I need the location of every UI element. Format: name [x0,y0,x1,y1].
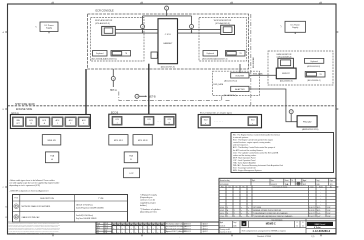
svg-text:Repl.: Repl. [252,180,256,182]
svg-text:TB: TB [125,53,127,55]
cable console to ECC-A (bold) [85,69,87,116]
svg-text:B.W 05.13: B.W 05.13 [185,226,191,228]
C ICU cabinet [158,19,178,64]
svg-text:3: 3 [83,123,84,125]
svg-text:SHIP SIDE (ECR): SHIP SIDE (ECR) [15,103,35,106]
svg-text:QA 12.17: QA 12.17 [203,222,209,225]
svg-text:B.W 05.13: B.W 05.13 [185,223,191,225]
ECC-3 unit SCU z [248,117,258,126]
svg-text:1ST ISSUE: 1ST ISSUE [253,207,261,209]
approval strip cells [112,226,165,234]
svg-text:(A13-50505B-3)(A13-50505Y-1): (A13-50505B-3)(A13-50505Y-1) [202,58,228,61]
ECC-B cabinet box [109,114,176,127]
title block outline [219,178,336,233]
WHS junction box [42,135,61,145]
MCU junction box 1 [109,135,128,145]
ECC-A unit ECU B [26,117,37,126]
svg-text:builder.): builder.) [140,204,147,207]
svg-text:1: 1 [51,2,52,4]
svg-text:EMS_DATA: EMS_DATA [253,72,263,75]
arrow node 2 to wire [142,29,144,34]
svg-text:depending on tech. agreement.(: depending on tech. agreement.(ICD) [9,184,40,187]
WOP-A group dashed box [91,18,145,62]
svg-text:12.04.17: 12.04.17 [309,216,315,218]
dash-dot boundary HFT-A to router [119,92,222,101]
svg-text:Chk: Chk [97,225,100,227]
svg-text:· · · · · ·: · · · · · · [214,120,223,123]
EMS console dashed box [268,51,333,85]
svg-text:2: 2 [70,123,71,125]
svg-text:(A11-D00057-3): (A11-D00057-3) [280,80,293,83]
node 1 above cabinet [165,6,169,10]
svg-text:Ap: Ap [330,185,332,188]
svg-text:06.10: 06.10 [105,225,109,227]
svg-text:1:1: 1:1 [302,225,304,227]
trackball (WOP-B) [226,51,246,57]
arrow node 3 to wire [191,29,193,34]
svg-text:· · ·: · · · [157,120,161,123]
svg-text:Pg: Pg [243,186,245,188]
svg-text:a: a [205,123,206,125]
svg-text:TSA : Tacho System Amplifier: TSA : Tacho System Amplifier [233,162,256,165]
svg-text:05.06.13: 05.06.13 [220,225,226,227]
keyboard (EMS) [305,58,324,63]
svg-text:B.W 05.13: B.W 05.13 [185,229,191,231]
title header band [219,185,336,187]
svg-text:*): *) [35,27,37,29]
svg-text:Keyboard: Keyboard [96,52,103,55]
svg-text:OPT: OPT [16,123,19,125]
svg-text:1: 1 [117,122,118,124]
svg-text:Dept: Dept [233,221,237,224]
svg-text:CAT5e/6 Tv/TvB (Pass): CAT5e/6 Tv/TvB (Pass) [76,203,93,206]
svg-text:DC Power: DC Power [44,25,53,27]
svg-text:Description of change: Description of change [273,185,288,188]
TSA B box [124,152,138,163]
DC power supply (left) [40,22,58,32]
MCU junction box N [133,135,152,145]
svg-text:ECU : The Engine Control Units: ECU : The Engine Control Units perform t… [233,139,273,142]
svg-text:(A13-50505A-3)(A13-50505Y-1): (A13-50505A-3)(A13-50505Y-1) [92,58,118,61]
svg-text:ENGINE SIDE: ENGINE SIDE [16,108,32,111]
wire node 1 down [166,10,168,16]
trackball (WOP-A) [111,51,131,57]
svg-text:B.W 05.13: B.W 05.13 [185,231,191,233]
wire adapter to PMI-CAU [249,89,297,122]
svg-text:A: A [227,209,228,212]
svg-text:HFT-A: HFT-A [110,89,117,92]
EMS monitor screen [278,58,294,68]
svg-text:- LENGTH is depends on Technic: - LENGTH is depends on Technical Agreeme… [9,189,49,192]
node 2 left of cabinet [141,25,145,29]
TSA A box [45,152,58,163]
svg-text:GENERAL UPDATE 2ND NO REPLIES: GENERAL UPDATE 2ND NO REPLIES [253,209,281,212]
svg-text:2045: 2045 [233,225,236,227]
cable cabinet to ECC-B (bold) [148,64,150,116]
svg-text:Rev: Rev [221,186,224,188]
ship side / engine side dashed line [8,105,337,107]
svg-text:4: 4 [319,2,320,4]
svg-text:F: F [297,222,298,224]
svg-text:Revised 06.10.27 rev B approve: Revised 06.10.27 rev B approved [166,229,186,231]
svg-text:CABLE FOR PMI-CAU: CABLE FOR PMI-CAU [22,216,41,219]
svg-text:(depending on ICD): (depending on ICD) [140,211,157,213]
svg-text:05.06: 05.06 [220,207,224,209]
svg-text:B: B [3,109,4,111]
svg-text:Appd: Appd [220,221,223,224]
svg-text:ECS components & arrangement f: ECS components & arrangement for ME/ME-C… [242,229,286,232]
svg-text:Name: Name [285,180,289,182]
svg-text:4-12-605280-3: 4-12-605280-3 [312,229,330,233]
svg-text:Standard - 07/2008: Standard - 07/2008 [257,235,271,238]
svg-text:Ind: Ind [229,186,231,188]
svg-text:DataTuff(Tv/TvB 5Gnet): DataTuff(Tv/TvB 5Gnet) [76,214,93,217]
svg-text:*) DIAG/PMS/ACCO(1386) DWG NO: *) DIAG/PMS/ACCO(1386) DWG NO CHANGED. [253,212,289,215]
wire cabinet to WOP-B monitor (upper) [178,28,221,30]
svg-text:and start sequence.: and start sequence. [233,144,249,147]
svg-text:Page: Page [330,180,333,182]
svg-text:Made: Made [97,223,101,225]
svg-text:TB: TB [240,53,242,55]
keyboard (WOP-A) [93,51,108,57]
ECC-A unit ACU 1 [52,117,63,126]
revision table [219,187,336,189]
svg-text:2 pumps el. driven: 2 pumps el. driven [220,232,232,234]
svg-text:Supply: Supply [292,27,298,29]
wire router to EMS PC [249,74,276,76]
wire WOP-A monitor to cabinet (lower) [115,32,158,34]
svg-text:EMS PC: EMS PC [282,73,290,75]
ECC-B unit CCU 1 [112,117,122,126]
svg-text:the HPS unit and the auxiliary: the HPS unit and the auxiliary blowers. [233,149,264,152]
svg-text:DC Power: DC Power [291,24,300,26]
wire WOP-B to router [239,64,241,73]
svg-text:4-12-605000: 4-12-605000 [220,184,229,186]
ECC-B unit CCU x [144,117,154,126]
svg-text:TSA: TSA [129,155,134,158]
PMI-CAU box [297,116,317,127]
svg-text:POS: POS [14,198,17,200]
svg-text:ADAPTER: ADAPTER [235,88,245,91]
svg-text:SCU : Scavenge Control Unit: SCU : Scavenge Control Unit [233,167,256,170]
svg-text:MCU J/B 1: MCU J/B 1 [114,140,123,142]
ECC-B unit CCU N [164,117,174,126]
svg-text:(A11-D00175-3): (A11-D00175-3) [224,80,237,83]
svg-text:LOP : Local Operation Panel: LOP : Local Operation Panel [233,159,256,162]
svg-text:Keyboard: Keyboard [310,60,317,63]
svg-text:Name: Name [319,186,323,188]
node 3 right of cabinet [190,25,194,29]
svg-text:EIU : The Engine Interface Con: EIU : The Engine Interface Control Units… [233,133,280,136]
svg-text:CABINET: CABINET [163,42,173,45]
ECC-A unit ACU 3 [78,117,89,126]
svg-text:NET-B: NET-B [149,96,156,99]
node 5 above PMI-CAU [289,110,293,114]
WOP-B group dashed box [199,18,247,62]
ECR console dashed enclosure [88,14,249,69]
svg-text:#2): #2) [5,217,8,219]
svg-text:(A66854/3161/3259): (A66854/3161/3259) [302,128,319,131]
svg-text:QA 12.17: QA 12.17 [203,230,209,233]
svg-text:RayClean 1000-EFB 1/38H26: RayClean 1000-EFB 1/38H26 [76,218,97,220]
svg-text:PMI-CAU : Pressure Measuring I: PMI-CAU : Pressure Measuring Instrument … [233,164,283,167]
svg-text:This drawing is subject to cha: This drawing is subject to change [166,222,185,225]
title main row [219,220,336,222]
svg-text:C ICU: C ICU [165,34,171,36]
EMS PC [276,68,296,79]
svg-text:05.06.13: 05.06.13 [271,184,277,186]
mini table (made by) [96,222,112,234]
svg-text:#1): #1) [5,207,8,209]
svg-text:(470-A00102-3): (470-A00102-3) [215,22,230,25]
svg-text:Supply: Supply [46,28,52,30]
svg-text:TB: TB [320,74,322,76]
svg-text:MOP : Main Operation Panel: MOP : Main Operation Panel [233,156,256,159]
LOP box [124,168,140,178]
documentation row [219,218,336,220]
svg-text:12: 12 [296,225,298,227]
bulkhead dash-dot line [250,14,252,105]
cable symbol row 2 [14,215,19,220]
wire HFT-A stub [112,69,114,76]
svg-text:MCU J/B N: MCU J/B N [138,140,148,142]
signature cells [165,222,219,234]
svg-text:MAN Diesel: MAN Diesel [315,223,326,226]
svg-text:1 (1): 1 (1) [311,236,315,238]
svg-text:RJ45_DATA: RJ45_DATA [213,83,224,86]
router [231,73,249,78]
svg-text:06.10: 06.10 [220,213,224,215]
approval strip header [112,222,165,226]
node NET-B [135,94,139,98]
svg-text:(A14-A07002-4): (A14-A07002-4) [224,94,237,97]
svg-text:(470-A00102-3): (470-A00102-3) [95,22,110,25]
svg-text:Date: Date [271,179,274,182]
svg-text:12.04: 12.04 [105,228,109,230]
svg-text:NETWORK CABLE FOR SHIPYARD: NETWORK CABLE FOR SHIPYARD [22,205,51,208]
arrow NET-B [139,95,146,97]
svg-text:05.06.13: 05.06.13 [309,207,315,209]
cable symbol row 1 [14,204,19,209]
svg-text:06.10.27: 06.10.27 [309,213,315,215]
svg-text:05.09: 05.09 [220,210,224,212]
wire bus over cabinet [143,15,192,17]
svg-text:Dept.: Dept. [316,179,320,182]
wire cabinet to WOP-B monitor (lower) [178,32,221,34]
ECC-3 unit SCU a [201,117,210,126]
svg-text:BULKHEAD: BULKHEAD [252,57,255,68]
svg-text:TYPE: TYPE [98,198,104,200]
svg-text:A: A [3,31,5,34]
svg-text:WHS J/B: WHS J/B [47,140,56,142]
svg-text:Documentation: Documentation [272,219,283,222]
title bottom row [219,227,306,229]
ECC-A cabinet box [10,115,90,129]
svg-text:Based on dwg: Based on dwg [220,180,230,182]
svg-text:**) ISO/UPDATE GB(1386) ELEC D: **) ISO/UPDATE GB(1386) ELEC DWG NO CHAN… [253,215,293,218]
svg-text:control functions : engine spe: control functions : engine speed, runnin… [233,141,271,144]
svg-text:contract, it can be: contract, it can be [140,199,155,202]
svg-text:E: E [302,222,303,224]
svg-text:TSA: TSA [50,155,55,158]
router-adapter dashed box [212,71,259,95]
svg-text:*) Shipyard's supply: *) Shipyard's supply [140,194,157,197]
wires aux box to cabinet [156,53,159,55]
svg-text:05.09.30: 05.09.30 [309,210,315,212]
svg-text:2: 2 [140,2,141,4]
aux box left of cabinet [151,52,157,58]
svg-text:05.06: 05.06 [105,223,109,225]
svg-text:C: C [3,187,5,189]
svg-text:(A11-50070Y-3): (A11-50070Y-3) [161,66,175,69]
svg-text:ACU : The Auxiliary Control Un: ACU : The Auxiliary Control Units contro… [233,146,276,149]
svg-text:Keyboard: Keyboard [207,52,214,55]
svg-text:PMI-CAU: PMI-CAU [303,120,312,123]
bottom strip top line [8,221,220,223]
svg-text:ME/ME-C: ME/ME-C [266,223,276,225]
legend box [231,133,334,173]
revision rows [219,190,336,192]
cable table [13,195,128,223]
svg-text:Q-A: Q-A [317,215,320,218]
svg-text:3: 3 [230,2,231,4]
svg-text:2045: 2045 [316,184,320,186]
wire WOP-A monitor to cabinet (upper) [115,28,158,30]
svg-text:CCU : The Cylinder Control Un: CCU : The Cylinder Control Units control… [233,151,279,154]
company logo block (dark) [307,222,333,226]
frame edge tick marks [52,2,54,4]
WOP-A monitor screen [102,26,116,35]
adapter [231,86,249,91]
svg-text:to external systems.: to external systems. [233,136,249,139]
trackball (EMS) [305,72,325,78]
svg-text:Ch: Ch [236,186,238,188]
svg-text:↓: ↓ [179,236,180,238]
MAN logo small [242,221,247,226]
svg-text:ROUTER: ROUTER [236,76,245,78]
svg-text:WOP-A MONITOR: WOP-A MONITOR [95,19,113,22]
svg-text:B: B [227,213,228,215]
svg-text:Drawing size A3: Drawing size A3 [220,228,230,231]
svg-text:LOP: LOP [129,173,134,175]
keyboard (WOP-B) [203,51,218,57]
DC power supply (right) [285,21,306,32]
svg-text:(A13-D00056-3): (A13-D00056-3) [307,65,320,68]
svg-text:*): *) [280,26,282,28]
svg-text:(A13-D00054-1): (A13-D00054-1) [308,79,321,82]
svg-text:ECR CONSOLE: ECR CONSOLE [96,9,115,12]
ECC-A unit ECU A [39,117,50,126]
WOP-B monitor screen [221,25,235,34]
svg-text:Q-A: Q-A [317,212,320,215]
svg-text:Appd: Appd [303,179,306,182]
svg-text:DESCRIPTION: DESCRIPTION [40,198,54,200]
ECC-A unit ACU 2 [65,117,76,126]
svg-text:valves and the starting valves: valves and the starting valves. [233,154,257,157]
node HFT-A [111,77,115,81]
ECC-A unit CAN OPT [12,117,23,126]
svg-text:DataTuff RayClean 1300-EFB 130: DataTuff RayClean 1300-EFB 1300/8N6 [76,206,104,209]
svg-text:EMS : Engine Management System: EMS : Engine Management Systems [233,169,262,172]
ECC-3 cabinet box [198,115,261,128]
svg-text:12.04: 12.04 [220,216,224,218]
svg-text:1: 1 [57,123,58,125]
svg-text:Date: Date [311,185,314,188]
wire node 5 to cable [290,114,292,122]
